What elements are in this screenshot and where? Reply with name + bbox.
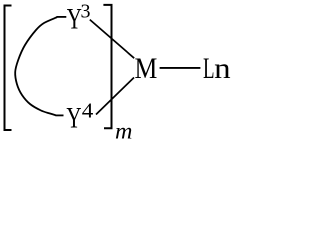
node atom M [135,52,158,85]
subscript m [115,119,132,144]
svg-text:L: L [203,53,215,85]
wire bond ring to Y3 [57,16,67,18]
svg-text:M: M [135,52,158,85]
bracket right [103,5,111,128]
node atom Ln : n [214,51,231,84]
ring arc [15,17,57,115]
svg-text:4: 4 [82,98,94,122]
bracket left [5,6,12,131]
wire bond M to Ln [160,67,201,69]
svg-text:Y: Y [66,101,81,135]
wire bond ring to Y4 [56,114,64,116]
superscript 3 [81,1,91,23]
svg-text:m: m [115,119,132,139]
wire bond Y3 to M [90,20,134,59]
node atom Ln : L [203,53,215,85]
svg-text:3: 3 [81,1,91,23]
superscript 4 [82,98,94,122]
node atom Y4 [66,101,81,135]
svg-text:n: n [214,51,231,84]
wire bond Y4 to M [96,78,134,115]
node atom Y3 [67,2,82,36]
